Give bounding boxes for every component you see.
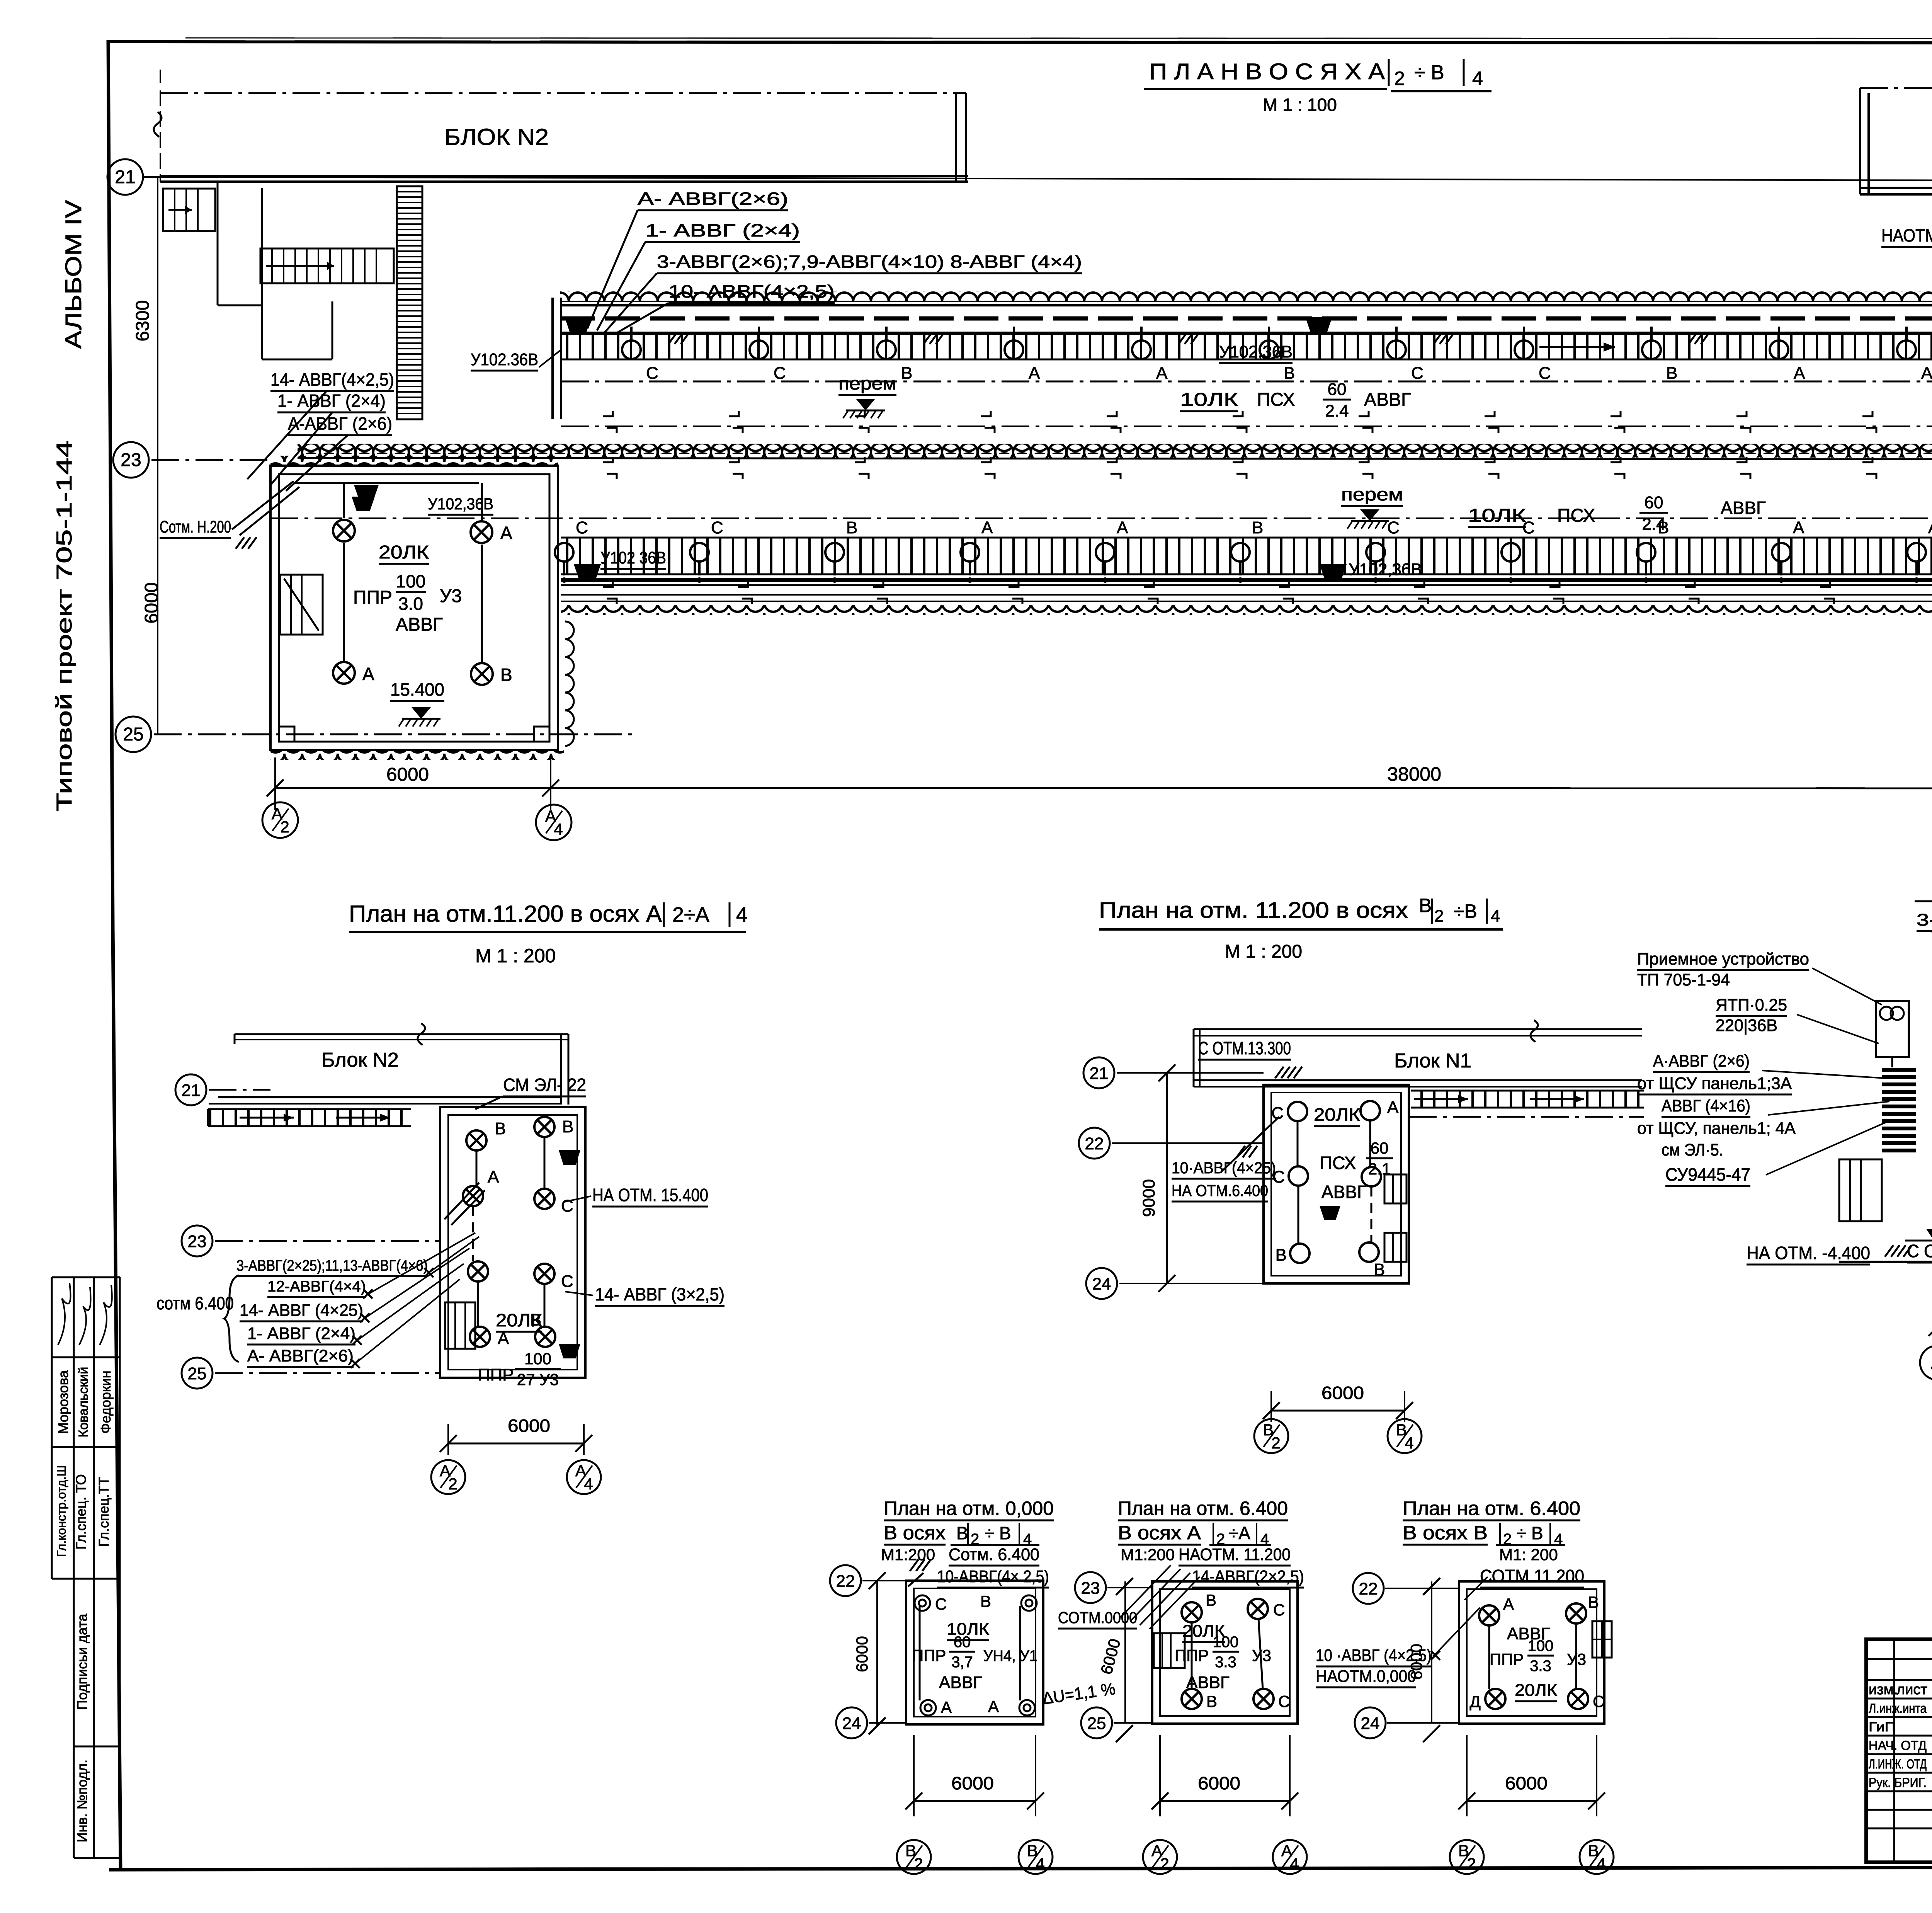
lamps room B (open)	[1288, 1102, 1307, 1121]
svg-text:6000: 6000	[1407, 1644, 1425, 1680]
svg-text:У102,36В: У102,36В	[428, 495, 493, 513]
svg-text:Блок N2: Блок N2	[321, 1049, 399, 1071]
svg-text:Федоркин: Федоркин	[98, 1370, 114, 1433]
svg-text:21: 21	[182, 1081, 201, 1100]
svg-text:ППР: ППР	[1490, 1650, 1524, 1668]
svg-text:С: С	[1273, 1601, 1285, 1619]
band3 centerline	[270, 517, 1932, 519]
band1 left wall	[551, 298, 554, 419]
svg-text:20ЛК: 20ЛК	[1314, 1105, 1360, 1125]
window grid b3	[1592, 1621, 1612, 1658]
svg-text:НА ОТМ.6.400: НА ОТМ.6.400	[1172, 1181, 1268, 1200]
svg-text:20ЛК: 20ЛК	[1515, 1681, 1557, 1700]
entry cable b1	[908, 1573, 923, 1586]
svg-text:А: А	[941, 1698, 952, 1716]
svg-text:2: 2	[448, 1475, 457, 1493]
Блок №2 outline	[160, 92, 966, 94]
svg-text:НАОТМ. Н.200: НАОТМ. Н.200	[1881, 225, 1932, 245]
svg-text:БЛОК N2: БЛОК N2	[444, 124, 549, 150]
stairs in left room	[280, 575, 323, 635]
svg-text:2: 2	[280, 818, 289, 836]
leaders from labels to device	[1812, 968, 1882, 1005]
svg-text:14-АВВГ(2×2,5): 14-АВВГ(2×2,5)	[1192, 1567, 1304, 1586]
gallery section hatched	[208, 1109, 411, 1126]
svg-text:6000: 6000	[508, 1416, 550, 1436]
svg-text:В: В	[1284, 364, 1295, 383]
svg-text:СОТМ.11.200: СОТМ.11.200	[1480, 1566, 1584, 1586]
svg-text:А: А	[1387, 1098, 1399, 1117]
svg-text:В: В	[495, 1119, 506, 1138]
node axis 21	[107, 159, 143, 195]
svg-text:План на отм. 0,000: План на отм. 0,000	[884, 1498, 1054, 1519]
bottom dimension line top plan	[275, 788, 1932, 788]
lamps b1 double circles	[915, 1595, 930, 1611]
gallery 1 upper wall scallops	[560, 291, 1932, 301]
svg-text:План на отм. 6.400: План на отм. 6.400	[1403, 1498, 1580, 1519]
svg-text:перем: перем	[838, 373, 896, 393]
Блок №1 outline	[1860, 87, 1932, 89]
svg-text:3.0: 3.0	[398, 594, 423, 614]
lamps band1	[622, 340, 641, 359]
svg-text:20ЛК: 20ЛК	[379, 542, 429, 563]
svg-text:24: 24	[1361, 1714, 1380, 1733]
svg-text:25: 25	[1087, 1714, 1106, 1733]
svg-text:3.3: 3.3	[1530, 1658, 1551, 1675]
svg-text:Гл.спец.ТТ: Гл.спец.ТТ	[96, 1477, 112, 1547]
node В/2 m	[1254, 1419, 1288, 1453]
cable bus band3 (thick)	[561, 578, 1932, 582]
svg-text:ТП 705-1-94: ТП 705-1-94	[1637, 970, 1730, 989]
svg-text:Приемное устройство: Приемное устройство	[1637, 950, 1809, 968]
svg-text:4: 4	[1036, 1855, 1044, 1873]
svg-text:А·АВВГ (2×6): А·АВВГ (2×6)	[1653, 1052, 1750, 1071]
node А/2 m	[431, 1460, 465, 1494]
node 22 b1	[830, 1565, 861, 1596]
conveyor strip block2	[397, 186, 422, 419]
node axis 23	[113, 442, 149, 478]
svg-text:24: 24	[1092, 1275, 1111, 1293]
svg-text:У3: У3	[1252, 1646, 1271, 1665]
node 24 b1	[836, 1707, 867, 1738]
node В/2 b3	[1450, 1840, 1484, 1874]
svg-text:НАОТМ.0,000: НАОТМ.0,000	[1316, 1667, 1416, 1686]
svg-text:В: В	[956, 1523, 968, 1543]
svg-text:15.400: 15.400	[390, 679, 444, 700]
panel busbar stack	[1882, 1068, 1916, 1072]
stairs mid-left	[260, 248, 394, 283]
svg-text:НАЧ. ОТД: НАЧ. ОТД	[1869, 1738, 1927, 1753]
wiring inside room top	[294, 482, 479, 484]
dim b1	[876, 1581, 878, 1726]
svg-text:В: В	[901, 364, 912, 383]
room 11.200 A	[440, 1107, 585, 1378]
band3 lower wall	[603, 582, 613, 587]
svg-text:В: В	[1206, 1692, 1217, 1710]
svg-text:27 У3: 27 У3	[517, 1370, 559, 1389]
svg-text:лист: лист	[1896, 1682, 1927, 1698]
room corner notches	[279, 727, 294, 742]
svg-text:В: В	[1206, 1591, 1216, 1609]
svg-text:АВВГ: АВВГ	[1186, 1673, 1230, 1692]
svg-text:14- АВВГ (3×2,5): 14- АВВГ (3×2,5)	[595, 1284, 724, 1304]
svg-text:÷ В: ÷ В	[985, 1523, 1011, 1543]
svg-text:А: А	[1794, 364, 1805, 383]
room b2	[1152, 1581, 1298, 1724]
svg-text:100: 100	[1213, 1634, 1239, 1651]
svg-text:М1:200: М1:200	[1121, 1545, 1175, 1564]
svg-text:12-АВВГ(4×4): 12-АВВГ(4×4)	[267, 1278, 366, 1295]
svg-text:Сотм. 6.400: Сотм. 6.400	[949, 1545, 1039, 1564]
svg-text:С: С	[1271, 1104, 1284, 1123]
room lamps	[333, 520, 355, 541]
svg-text:АВВГ: АВВГ	[1364, 390, 1411, 410]
svg-text:СУ9445-47: СУ9445-47	[1665, 1164, 1750, 1185]
svg-text:1- АВВГ (2×4): 1- АВВГ (2×4)	[247, 1324, 355, 1343]
dim 6000 room B	[1271, 1410, 1405, 1412]
svg-text:ПСХ: ПСХ	[1257, 390, 1295, 410]
svg-text:2.4: 2.4	[1642, 515, 1665, 534]
dim b2	[1124, 1581, 1126, 1724]
svg-text:10-АВВГ(4× 2,5): 10-АВВГ(4× 2,5)	[937, 1567, 1049, 1586]
svg-text:60: 60	[1645, 493, 1663, 512]
svg-text:АВВГ: АВВГ	[1721, 498, 1766, 518]
node В/4 b1	[1019, 1840, 1053, 1874]
svg-text:4: 4	[1405, 1434, 1413, 1452]
svg-text:У102.36В: У102.36В	[471, 350, 538, 369]
svg-text:38000: 38000	[1387, 763, 1441, 785]
node 25 b2	[1081, 1707, 1112, 1738]
svg-text:В осях: В осях	[884, 1522, 946, 1544]
node А/4 b2	[1273, 1840, 1307, 1874]
svg-text:НАОТМ. 11.200: НАОТМ. 11.200	[1179, 1545, 1291, 1564]
svg-text:4: 4	[1472, 68, 1483, 89]
node В/4 m	[1388, 1419, 1422, 1453]
svg-text:С: С	[561, 1272, 573, 1291]
leaders to gallery	[587, 210, 638, 328]
room 11.200 B	[1264, 1085, 1409, 1283]
band1 centerline	[561, 381, 1932, 383]
svg-text:6000: 6000	[853, 1636, 871, 1672]
svg-text:А: А	[1928, 518, 1932, 537]
svg-text:220|36В: 220|36В	[1716, 1016, 1777, 1035]
svg-text:22: 22	[1359, 1579, 1378, 1598]
svg-text:ППР: ППР	[1175, 1646, 1209, 1665]
svg-text:100: 100	[396, 571, 426, 591]
svg-text:М1:200: М1:200	[881, 1545, 935, 1564]
bridge corner marks row2	[603, 457, 613, 462]
svg-text:С: С	[774, 364, 786, 383]
svg-text:В: В	[1252, 518, 1263, 537]
stairs top-left	[163, 189, 215, 231]
svg-text:10ЛК: 10ЛК	[1180, 390, 1238, 410]
stairs room A	[445, 1302, 475, 1349]
svg-text:6000: 6000	[1505, 1773, 1548, 1793]
stairs room B	[1384, 1174, 1406, 1203]
svg-text:24: 24	[842, 1714, 861, 1733]
svg-text:АВВГ (4×16): АВВГ (4×16)	[1662, 1096, 1750, 1115]
node 23 b2	[1075, 1572, 1106, 1603]
dim 6000 room A	[448, 1443, 584, 1445]
svg-text:Блок N1: Блок N1	[1394, 1050, 1471, 1072]
svg-text:А: А	[1921, 364, 1932, 383]
svg-text:21: 21	[115, 167, 135, 187]
stairs b2	[1154, 1633, 1185, 1668]
dimension 6300 (axes 21-23)	[160, 70, 161, 177]
svg-text:АВВГ: АВВГ	[396, 614, 443, 635]
node А/4 m	[567, 1460, 601, 1494]
lamps b3	[1479, 1605, 1499, 1625]
svg-text:60: 60	[1328, 380, 1347, 399]
svg-text:В: В	[1374, 1260, 1385, 1279]
svg-text:3.3: 3.3	[1215, 1654, 1236, 1671]
node axis 25m	[182, 1358, 213, 1389]
svg-text:П Л А Н В О С Я Х А: П Л А Н В О С Я Х А	[1149, 59, 1385, 84]
block2 fragment	[235, 1033, 568, 1035]
svg-text:2.4: 2.4	[1325, 402, 1349, 420]
svg-text:АВВГ: АВВГ	[1321, 1182, 1367, 1202]
lamps b2	[1182, 1602, 1202, 1622]
room b1	[906, 1581, 1043, 1724]
svg-text:А: А	[362, 664, 374, 684]
svg-text:60: 60	[954, 1634, 971, 1651]
svg-text:9000: 9000	[1139, 1179, 1158, 1217]
svg-text:Гл.спец. ТО: Гл.спец. ТО	[73, 1474, 89, 1550]
svg-text:А: А	[1029, 364, 1040, 383]
svg-text:С ОТМ.13.300: С ОТМ.13.300	[1198, 1038, 1291, 1058]
svg-text:С: С	[1387, 518, 1400, 537]
svg-text:100: 100	[1528, 1637, 1554, 1654]
node А plan	[1920, 1346, 1932, 1380]
svg-text:23: 23	[188, 1232, 207, 1251]
svg-text:6000: 6000	[141, 582, 162, 624]
gallery right hatched	[1411, 1091, 1643, 1108]
svg-text:60: 60	[1371, 1139, 1389, 1157]
svg-text:25: 25	[188, 1364, 207, 1383]
svg-text:÷А: ÷А	[1229, 1523, 1250, 1543]
svg-text:У3: У3	[1567, 1650, 1586, 1668]
svg-text:14- АВВГ (4×25): 14- АВВГ (4×25)	[240, 1301, 363, 1320]
svg-text:НА ОТМ. 15.400: НА ОТМ. 15.400	[592, 1185, 708, 1205]
svg-text:Типовой проект 705-1-144: Типовой проект 705-1-144	[52, 441, 76, 812]
luminaire fixtures band1	[565, 317, 592, 334]
svg-text:Подписьи дата: Подписьи дата	[74, 1613, 90, 1710]
svg-text:С: С	[646, 364, 658, 383]
svg-text:2÷А: 2÷А	[672, 903, 709, 926]
svg-text:4: 4	[584, 1475, 593, 1493]
svg-text:2: 2	[914, 1855, 923, 1873]
node А/2 b2	[1143, 1840, 1177, 1874]
sheet frame border	[108, 40, 121, 1870]
svg-text:100: 100	[524, 1350, 551, 1368]
svg-text:4: 4	[736, 903, 748, 926]
svg-text:А- АВВГ(2×6): А- АВВГ(2×6)	[638, 189, 788, 209]
svg-text:У102 36В: У102 36В	[600, 548, 666, 567]
svg-text:В: В	[562, 1117, 573, 1136]
svg-text:20ЛК: 20ЛК	[496, 1310, 542, 1330]
svg-text:22: 22	[836, 1572, 855, 1591]
room b3	[1459, 1581, 1604, 1724]
svg-text:ПСХ: ПСХ	[1320, 1153, 1356, 1173]
svg-text:3-АВВГ(2×25);11,13-АВВГ(4×6): 3-АВВГ(2×25);11,13-АВВГ(4×6)	[236, 1257, 428, 1274]
svg-text:С: С	[561, 1196, 573, 1215]
node axis 23m	[182, 1225, 213, 1256]
svg-text:С: С	[1411, 364, 1423, 383]
node axis 21m	[175, 1074, 206, 1105]
svg-text:4: 4	[1597, 1855, 1605, 1873]
band1 floor hatch	[561, 334, 1932, 359]
svg-text:4: 4	[1290, 1855, 1299, 1873]
svg-text:С: С	[935, 1595, 947, 1613]
svg-text:План на отм. 6.400: План на отм. 6.400	[1118, 1498, 1288, 1519]
svg-text:ГиП: ГиП	[1869, 1720, 1896, 1734]
svg-text:23: 23	[1081, 1579, 1100, 1598]
svg-text:перем: перем	[1341, 484, 1403, 504]
svg-text:2: 2	[1271, 1434, 1280, 1452]
svg-text:А: А	[981, 518, 993, 537]
title block frame	[1866, 1639, 1932, 1862]
svg-text:А: А	[1793, 518, 1804, 537]
lamps room A	[466, 1130, 486, 1151]
svg-text:С: С	[1593, 1692, 1604, 1710]
transformer box ЯТП	[1876, 1001, 1909, 1057]
block1 fragment	[1194, 1028, 1642, 1030]
svg-text:÷ В: ÷ В	[1517, 1523, 1543, 1543]
svg-text:Сотм. Н.200: Сотм. Н.200	[160, 517, 231, 536]
svg-text:ППР: ППР	[353, 587, 392, 608]
leaders cable list	[428, 1237, 479, 1273]
svg-text:6000: 6000	[951, 1773, 994, 1793]
svg-text:ППР: ППР	[912, 1646, 946, 1665]
svg-text:÷ В: ÷ В	[1414, 61, 1444, 84]
svg-text:СМ ЭЛ- 22: СМ ЭЛ- 22	[503, 1075, 586, 1095]
node 24 b3	[1355, 1707, 1386, 1738]
svg-text:6300: 6300	[133, 300, 153, 342]
svg-text:3-АВВГ(2×6);7,9-АВВГ(4×10) 8-А: 3-АВВГ(2×6);7,9-АВВГ(4×10) 8-АВВГ (4×4)	[657, 252, 1082, 272]
svg-text:С: С	[1278, 1692, 1290, 1710]
svg-text:План на отм.11.200 в осях А: План на отм.11.200 в осях А	[349, 901, 662, 927]
svg-text:2: 2	[1434, 907, 1444, 926]
svg-text:С: С	[576, 518, 588, 537]
svg-text:А: А	[1117, 518, 1128, 537]
dim b3	[1431, 1581, 1432, 1723]
svg-text:см ЭЛ·5.: см ЭЛ·5.	[1662, 1140, 1723, 1159]
luminaire fixtures band3	[574, 564, 601, 581]
signatures scribble top	[58, 1283, 71, 1345]
svg-text:План на отм. 11.200 в осях: План на отм. 11.200 в осях	[1099, 898, 1408, 923]
left margin signature table	[52, 1276, 120, 1278]
svg-text:4: 4	[554, 820, 563, 838]
svg-text:изм.: изм.	[1869, 1682, 1898, 1698]
svg-text:АЛЬБОМ IV: АЛЬБОМ IV	[61, 200, 86, 349]
svg-text:2: 2	[1394, 68, 1405, 89]
svg-text:С: С	[711, 518, 723, 537]
wall line under block2 continuing right	[143, 177, 1932, 182]
svg-text:С ОТМ.1.200: С ОТМ.1.200	[1907, 1241, 1932, 1261]
svg-text:2: 2	[1160, 1855, 1169, 1873]
svg-text:А: А	[488, 1168, 499, 1186]
svg-text:АВВГ: АВВГ	[939, 1673, 982, 1692]
dimension 6000 (axes 23-25)	[157, 460, 158, 734]
svg-text:14- АВВГ(4×2,5): 14- АВВГ(4×2,5)	[270, 369, 394, 390]
svg-text:сотм 6.400: сотм 6.400	[156, 1293, 234, 1313]
bridge corner marks row1	[603, 411, 613, 416]
node В/2 b1	[897, 1840, 931, 1874]
svg-text:2: 2	[1467, 1855, 1476, 1873]
band3 floor hatch	[561, 538, 1932, 574]
svg-text:А: А	[1156, 364, 1168, 383]
grounding ticks band1	[668, 332, 677, 344]
svg-text:У102,36В: У102,36В	[1349, 560, 1422, 579]
svg-text:У102,36В: У102,36В	[1219, 342, 1293, 361]
svg-text:В: В	[500, 665, 512, 685]
svg-text:21: 21	[1090, 1064, 1109, 1083]
svg-text:10ЛК: 10ЛК	[1468, 505, 1526, 526]
svg-text:25: 25	[123, 724, 143, 745]
svg-text:ПСХ: ПСХ	[1557, 505, 1595, 526]
svg-text:3- АВВГ (2×2,5), 11,13- АВВГ(: 3- АВВГ (2×2,5), 11,13- АВВГ(4×6); 12- А…	[1917, 911, 1932, 929]
svg-text:М 1 : 200: М 1 : 200	[475, 945, 556, 967]
svg-text:÷В: ÷В	[1454, 900, 1477, 922]
svg-text:4: 4	[1491, 907, 1500, 926]
node А/4	[536, 805, 571, 840]
svg-text:ППР: ППР	[478, 1365, 514, 1384]
svg-text:М1: 200: М1: 200	[1499, 1545, 1558, 1564]
svg-text:А: А	[500, 523, 512, 543]
svg-text:В: В	[980, 1592, 991, 1610]
svg-text:УН4, У1: УН4, У1	[983, 1647, 1037, 1665]
svg-text:6000: 6000	[386, 764, 429, 785]
left room walls	[270, 466, 558, 750]
svg-text:Инв. №подл.: Инв. №подл.	[74, 1760, 90, 1842]
svg-text:22: 22	[1085, 1134, 1104, 1153]
svg-text:от ЩСУ, панель1; 4А: от ЩСУ, панель1; 4А	[1637, 1119, 1796, 1138]
svg-text:А: А	[1503, 1595, 1514, 1613]
svg-text:В осях А: В осях А	[1118, 1522, 1201, 1544]
svg-text:Рук. БРИГ.: Рук. БРИГ.	[1869, 1775, 1927, 1790]
node 22 b3	[1353, 1573, 1384, 1604]
svg-text:6000: 6000	[1321, 1383, 1364, 1403]
svg-text:Морозова: Морозова	[55, 1370, 71, 1434]
direction arrow band1	[1539, 346, 1615, 348]
svg-text:ЯТП·0.25: ЯТП·0.25	[1716, 996, 1787, 1014]
svg-text:НА ОТМ. -4.400: НА ОТМ. -4.400	[1747, 1243, 1870, 1263]
gallery2 top scallops	[298, 444, 1932, 454]
svg-text:В: В	[1588, 1593, 1599, 1611]
svg-text:3,7: 3,7	[951, 1654, 973, 1671]
svg-text:Гл.констр.отд.Ш: Гл.констр.отд.Ш	[54, 1465, 68, 1557]
svg-text:М 1 : 100: М 1 : 100	[1263, 95, 1337, 115]
svg-text:М 1 : 200: М 1 : 200	[1225, 941, 1302, 962]
svg-text:В: В	[1276, 1246, 1287, 1265]
cable trunk line band1 (thick dashed)	[560, 317, 1932, 321]
svg-text:А- АВВГ(2×6): А- АВВГ(2×6)	[247, 1346, 354, 1365]
entry cables b2 diagonal	[1121, 1565, 1171, 1617]
node axis 21c	[1083, 1057, 1114, 1088]
svg-text:А: А	[988, 1697, 999, 1716]
svg-text:В: В	[1666, 364, 1677, 383]
fixtures right wall	[559, 1150, 580, 1165]
band3 bottom scallops	[561, 605, 1932, 615]
svg-text:1- АВВГ (2×4): 1- АВВГ (2×4)	[645, 220, 800, 240]
svg-text:С: С	[1539, 364, 1551, 383]
node axis 24c	[1086, 1268, 1117, 1299]
svg-text:Л.инж.инта: Л.инж.инта	[1869, 1701, 1927, 1716]
svg-text:В: В	[1419, 895, 1432, 916]
dim 9000 vertical	[1166, 1073, 1168, 1283]
node axis 22c	[1079, 1128, 1110, 1159]
svg-text:10·АВВГ(4×25): 10·АВВГ(4×25)	[1172, 1159, 1276, 1177]
svg-text:1- АВВГ (2×4): 1- АВВГ (2×4)	[277, 391, 386, 411]
